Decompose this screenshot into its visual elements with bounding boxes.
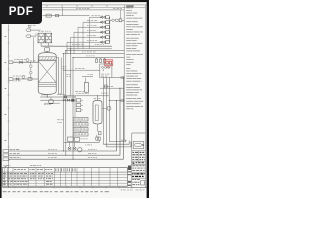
filter F-1 xyxy=(38,33,44,43)
title block frame and stamp xyxy=(132,133,146,188)
title block text rows xyxy=(132,165,146,172)
vessel label xyxy=(62,67,66,70)
riser-header junctions xyxy=(63,142,74,160)
mid label 3 xyxy=(75,90,84,93)
feed line 2 xyxy=(9,75,38,81)
drop line 3 xyxy=(108,78,110,142)
page background xyxy=(0,0,149,198)
company logo band xyxy=(132,162,146,165)
separator label xyxy=(94,97,101,100)
main header A xyxy=(41,44,112,46)
signature strip xyxy=(128,166,131,187)
downcomer pipe xyxy=(56,58,61,95)
title block bottom rows xyxy=(132,179,144,185)
control box xyxy=(100,64,112,78)
interconnect 88 xyxy=(100,86,124,88)
knock-out pot xyxy=(82,74,93,92)
level bridle xyxy=(75,93,89,117)
notes column divider line xyxy=(123,5,125,141)
drain header xyxy=(73,56,124,63)
riser line 3 xyxy=(70,49,72,96)
cascade collector line xyxy=(109,17,111,42)
interconnect 95 xyxy=(64,95,109,97)
junction nodes xyxy=(47,48,124,101)
PDF badge xyxy=(0,0,42,24)
elbow run outer 1 xyxy=(103,141,129,145)
revision table xyxy=(2,168,127,187)
relief valve row 1 xyxy=(90,15,110,49)
pipeline header 2 xyxy=(3,88,120,156)
notes list text xyxy=(126,6,143,110)
pipe header line top xyxy=(43,8,125,10)
riser line 2 xyxy=(65,51,67,142)
scan edge top xyxy=(0,0,149,2)
relief valve row 3 xyxy=(78,25,109,49)
red revision markup xyxy=(104,60,113,68)
drop line 2 xyxy=(104,78,107,147)
level transmitter circle xyxy=(102,106,111,110)
interconnect 77 xyxy=(112,77,124,79)
bottoms line xyxy=(40,94,76,98)
interconnect 70 xyxy=(63,68,100,70)
flare discharge assembly xyxy=(110,10,124,22)
interconnect 100 xyxy=(109,100,124,102)
relief valve row 5 xyxy=(71,35,110,53)
riser line 4 xyxy=(72,58,74,142)
mid label 2 xyxy=(67,74,71,77)
scan edge left xyxy=(0,0,2,198)
mid label xyxy=(57,120,64,123)
title block owner rows xyxy=(132,151,146,161)
instrument box 3 xyxy=(73,127,88,132)
table caption xyxy=(4,164,42,167)
footer right text xyxy=(121,189,145,192)
separator vessel V-2 xyxy=(93,96,102,135)
scan edge right xyxy=(147,0,149,198)
riser line 1 xyxy=(62,54,64,145)
instrument box 1 xyxy=(73,117,88,122)
drawing number block xyxy=(132,173,146,178)
inlet piping top-left xyxy=(26,25,41,62)
bottoms line 2 xyxy=(40,99,76,105)
relief valve row 4 xyxy=(74,30,109,53)
instrument box 2 xyxy=(73,122,88,127)
feed line 1 xyxy=(9,59,38,64)
column vessel T-100 xyxy=(38,46,56,95)
filter F-2 xyxy=(39,31,52,43)
main header D xyxy=(63,52,124,54)
bottom pump cluster xyxy=(64,137,99,152)
drawing border frame xyxy=(2,5,146,189)
relief valve row 2 xyxy=(83,20,109,49)
elbow run outer 2 xyxy=(106,141,131,147)
pipeline header 3 xyxy=(3,78,123,161)
elbow run outer 3 xyxy=(109,140,126,142)
pump P-1 xyxy=(49,97,54,104)
filter outlet drop xyxy=(41,43,48,46)
instrument box 4 xyxy=(73,132,88,136)
pipeline header 1 xyxy=(3,101,116,153)
mid label 4 xyxy=(101,92,108,95)
main header C xyxy=(66,50,124,52)
inlet line from top xyxy=(43,7,90,17)
footer path text xyxy=(3,191,109,192)
level standpipe xyxy=(30,62,33,79)
drop line 1 xyxy=(102,78,104,145)
relief valve row 6 xyxy=(67,40,109,53)
main header B xyxy=(67,48,112,50)
drop symbols xyxy=(96,135,100,143)
